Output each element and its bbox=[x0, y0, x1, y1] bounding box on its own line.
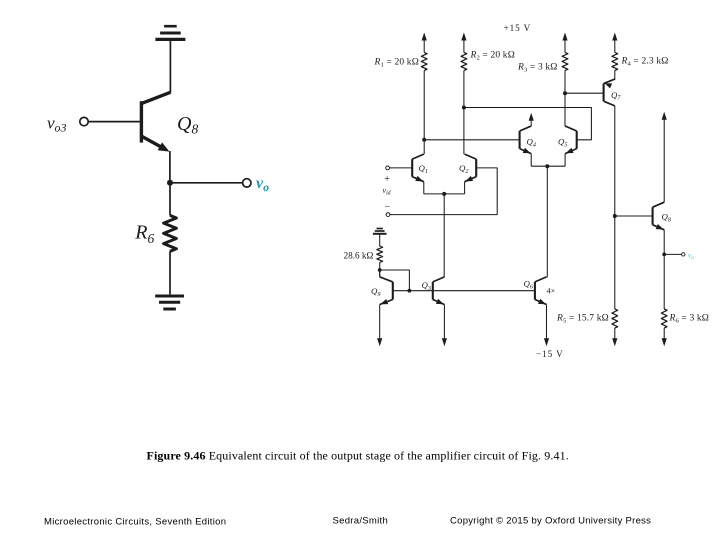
svg-text:−15 V: −15 V bbox=[536, 349, 564, 359]
svg-text:Copyright © 2015 by Oxford Uni: Copyright © 2015 by Oxford University Pr… bbox=[450, 516, 651, 527]
svg-text:R3 = 3 kΩ: R3 = 3 kΩ bbox=[517, 63, 558, 74]
svg-text:R1 = 20 kΩ: R1 = 20 kΩ bbox=[374, 58, 419, 69]
svg-text:Microelectronic Circuits, Seve: Microelectronic Circuits, Seventh Editio… bbox=[44, 517, 226, 528]
svg-text:28.6 kΩ: 28.6 kΩ bbox=[344, 251, 374, 261]
svg-text:−: − bbox=[385, 202, 391, 213]
svg-text:4×: 4× bbox=[547, 287, 556, 296]
svg-text:+: + bbox=[384, 174, 390, 185]
svg-text:R6 = 3 kΩ: R6 = 3 kΩ bbox=[669, 314, 710, 325]
svg-text:Sedra/Smith: Sedra/Smith bbox=[333, 516, 389, 527]
svg-text:R2 = 20 kΩ: R2 = 20 kΩ bbox=[470, 51, 515, 62]
svg-text:Figure 9.46 Equivalent circuit: Figure 9.46 Equivalent circuit of the ou… bbox=[147, 448, 569, 462]
svg-text:+15 V: +15 V bbox=[504, 23, 532, 33]
